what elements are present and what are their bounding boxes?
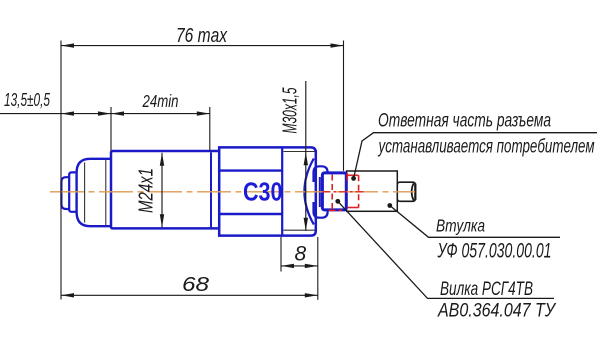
- end ring arc: [412, 183, 414, 200]
- svg-text:Втулка: Втулка: [436, 215, 485, 235]
- thread line bottom: [284, 229, 315, 231]
- extension line 76max right: [343, 41, 345, 171]
- body divider: [281, 148, 283, 235]
- collar edge: [319, 177, 321, 207]
- svg-text:устанавливается потребителем: устанавливается потребителем: [377, 136, 594, 157]
- extension line 8 left: [280, 237, 282, 272]
- dimension 13,5±0,5: [0, 113, 111, 115]
- svg-text:Вилка РСГ4ТВ: Вилка РСГ4ТВ: [440, 279, 533, 300]
- extension line at thread end: [209, 107, 211, 151]
- thread end line: [210, 152, 212, 227]
- mating connector red step edge: [346, 173, 348, 181]
- body M30: [219, 147, 316, 235]
- thread line top: [284, 151, 315, 153]
- centerline: [50, 191, 415, 193]
- tip disc: [69, 172, 77, 211]
- tip nub: [61, 177, 69, 209]
- face arc: [304, 159, 313, 225]
- dome inner line 2: [105, 160, 107, 225]
- svg-text:24min: 24min: [142, 91, 179, 111]
- dome inner line 1: [84, 162, 86, 222]
- mating connector red bottom flange: [329, 209, 343, 211]
- leader note 1: [351, 176, 356, 181]
- mating connector red dashed right edge: [358, 175, 360, 207]
- mating connector red dashed left edge: [331, 175, 333, 212]
- collar bump bottom: [314, 202, 328, 218]
- cylinder M24: [111, 151, 220, 228]
- dimension 24min: [111, 113, 210, 115]
- mating connector red top edge: [347, 174, 358, 176]
- svg-text:АВ0.364.047 ТУ: АВ0.364.047 ТУ: [437, 299, 557, 321]
- extension line at cylinder start: [110, 107, 112, 151]
- svg-text:68: 68: [182, 274, 209, 296]
- hex flat bottom: [220, 213, 283, 215]
- neck: [397, 182, 415, 201]
- collar bump top: [314, 166, 328, 182]
- dome cap: [77, 159, 112, 226]
- pin housing: [322, 173, 346, 210]
- svg-text:УФ 057.030.00.01: УФ 057.030.00.01: [437, 239, 552, 262]
- dimension 76 max: [61, 45, 344, 47]
- extension line left: [60, 41, 62, 300]
- dimension 68: [61, 294, 318, 296]
- hex flat top: [220, 169, 283, 171]
- leader note 2 (Втулка): [387, 203, 392, 208]
- svg-text:М30х1,5: М30х1,5: [280, 87, 302, 134]
- svg-text:13,5±0,5: 13,5±0,5: [4, 90, 51, 110]
- svg-text:Ответная часть разъема: Ответная часть разъема: [378, 111, 551, 132]
- leader note 3 (Вилка): [335, 199, 340, 204]
- svg-text:76 max: 76 max: [176, 25, 228, 47]
- extension line right 8/68: [317, 237, 319, 300]
- end ring edge: [414, 184, 416, 200]
- dimension M24x1: [161, 153, 163, 228]
- red centerline segment: [323, 191, 364, 193]
- svg-text:8: 8: [295, 243, 307, 266]
- dimension 8: [281, 265, 318, 267]
- mating connector red bottom edge: [347, 207, 358, 209]
- sleeve: [347, 171, 398, 211]
- dimension M30x1,5: [305, 81, 307, 231]
- svg-text:М24х1: М24х1: [136, 168, 158, 213]
- svg-text:С30: С30: [243, 176, 283, 206]
